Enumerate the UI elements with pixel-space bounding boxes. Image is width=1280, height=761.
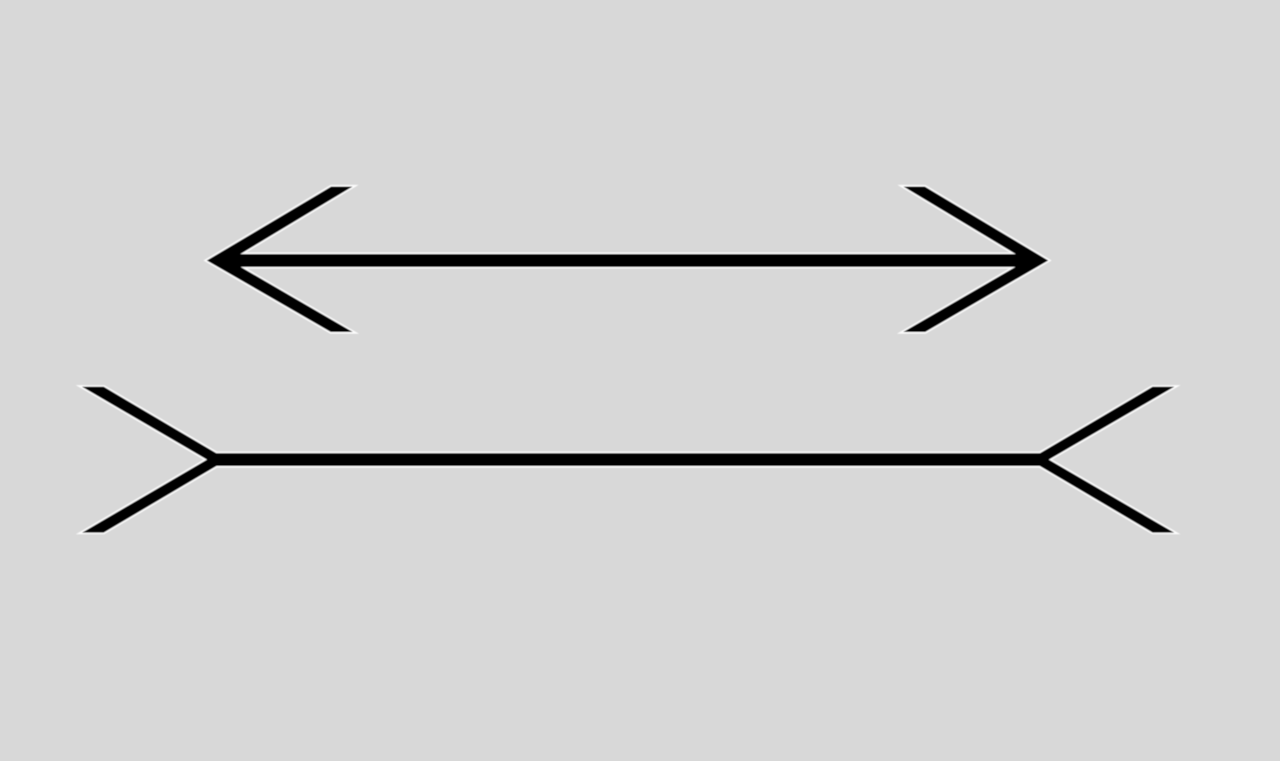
top figure: right arrowhead xyxy=(903,187,1048,332)
bottom figure: shaft line (fins pointing outward) xyxy=(216,453,1040,466)
bottom figure: right fin xyxy=(1029,387,1174,533)
white halo outlines xyxy=(82,187,1174,533)
bottom figure: left fin xyxy=(82,387,227,533)
top figure: shaft line (arrowheads pointing inward) xyxy=(219,254,1038,267)
top figure: left arrowhead xyxy=(207,187,353,332)
